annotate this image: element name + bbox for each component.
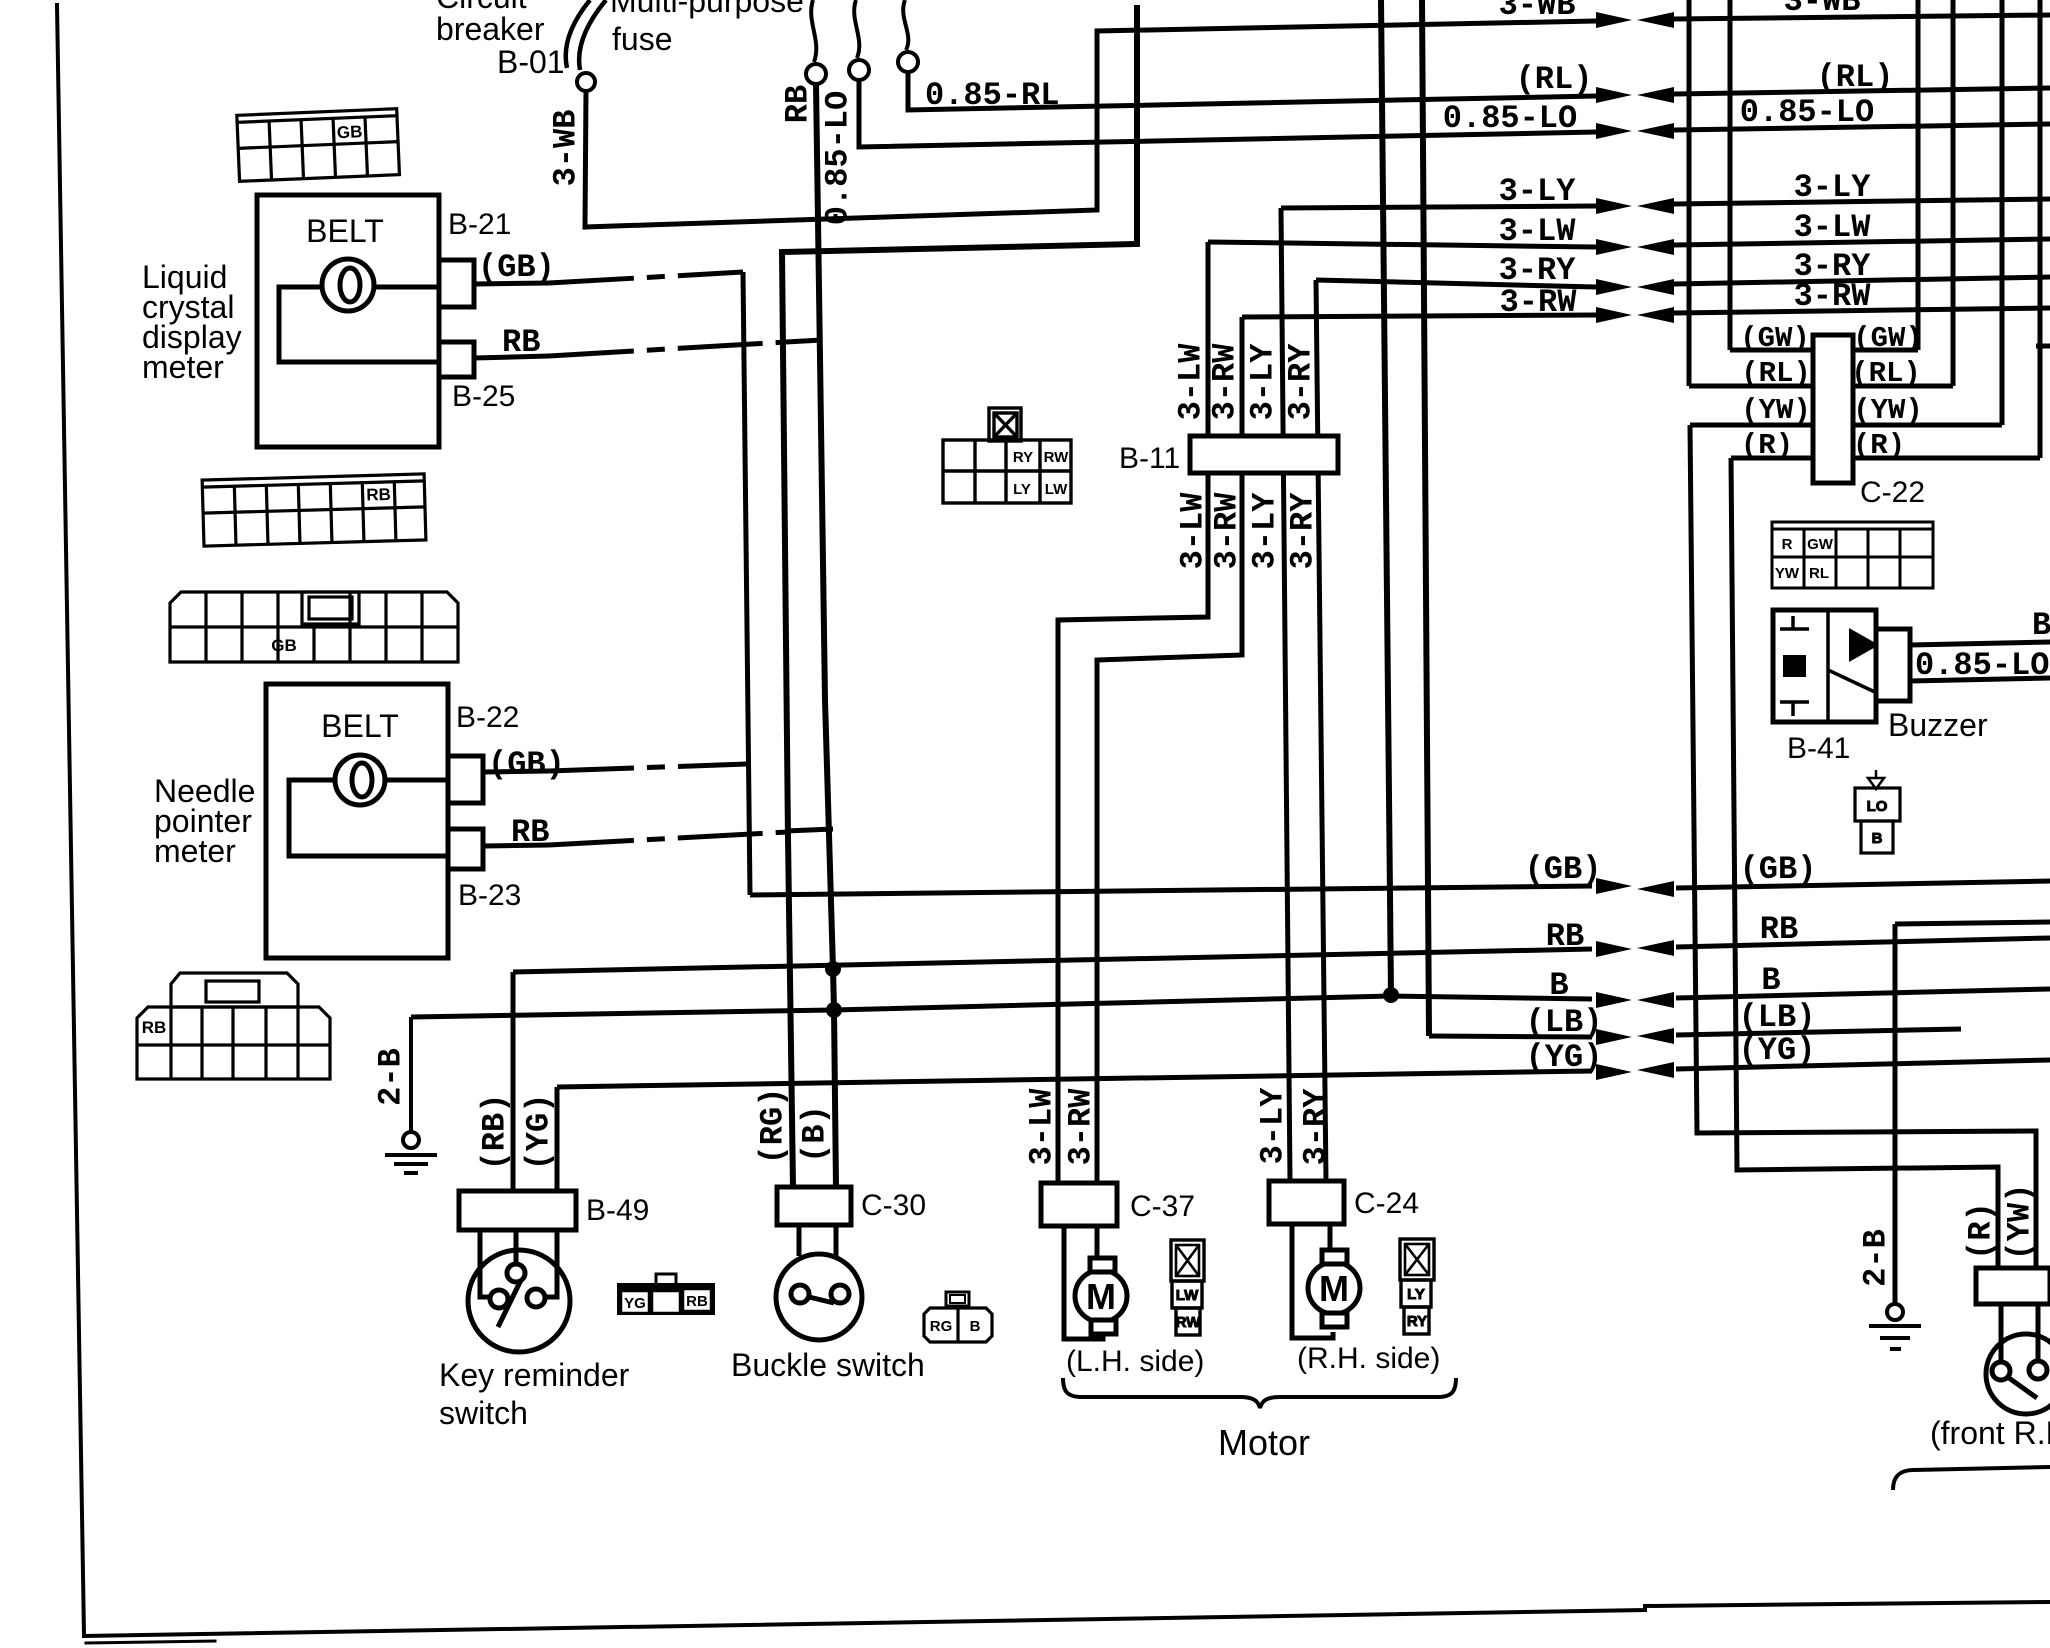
page border bottom (84, 1602, 2050, 1636)
svg-text:3-RW: 3-RW (1207, 343, 1244, 421)
svg-text:0.85-RL: 0.85-RL (925, 77, 1059, 114)
svg-text:Multi-purpose: Multi-purpose (610, 0, 804, 19)
svg-text:B-11: B-11 (1119, 442, 1180, 475)
svg-text:3-LY: 3-LY (1247, 492, 1284, 570)
wire 3-WB right segment (1674, 15, 2050, 19)
svg-text:3-LY: 3-LY (1499, 173, 1577, 210)
wire (GB) dashed from B-21 (474, 283, 549, 284)
pin (GB) B-21 (439, 260, 474, 307)
connector C-22 (1813, 335, 1853, 483)
svg-text:RG: RG (930, 1318, 953, 1335)
wire RB dashed from B-25 (474, 356, 549, 358)
connector B-49 (459, 1191, 576, 1230)
motor wires C-24 (1292, 1224, 1333, 1338)
wire 0.85-LO right segment (1674, 124, 2050, 130)
buzzer pin box (1876, 629, 1910, 701)
svg-text:0.85-LO: 0.85-LO (1443, 100, 1577, 137)
wire (LB) long (1429, 1036, 1592, 1037)
brace Motor (1063, 1378, 1456, 1408)
connector pin table B-11 face (943, 408, 1071, 503)
svg-text:YG: YG (624, 1295, 646, 1312)
svg-text:C-24: C-24 (1354, 1187, 1419, 1220)
svg-text:3-LW: 3-LW (1024, 1088, 1061, 1166)
svg-text:Buzzer: Buzzer (1888, 707, 1988, 743)
svg-text:3-WB: 3-WB (548, 110, 585, 187)
wire 3-LW (1208, 242, 1596, 247)
svg-text:3-RY: 3-RY (1283, 343, 1320, 421)
svg-text:(YG): (YG) (1739, 1032, 1816, 1069)
multi-purpose fuse 1 (811, 0, 816, 62)
wire vertical (GW) right riser (1916, 0, 1921, 350)
svg-text:Key reminder: Key reminder (439, 1357, 630, 1393)
pin (GB) B-22 (448, 756, 483, 803)
svg-text:(GW): (GW) (1853, 322, 1923, 355)
ground 2-B right (1887, 1304, 1903, 1320)
front R.H. switch body (2001, 1304, 2038, 1361)
svg-text:fuse: fuse (612, 21, 672, 57)
svg-text:(R): (R) (1963, 1202, 2000, 1260)
svg-text:breaker: breaker (436, 11, 545, 47)
buckle switch body (799, 1225, 836, 1256)
wire 0.85-LO from fuse 2 (859, 80, 1596, 147)
svg-text:3-WB: 3-WB (1784, 0, 1861, 20)
svg-text:3-LW: 3-LW (1499, 213, 1577, 250)
wire (YG) to B-49 (555, 1087, 560, 1191)
junction dot RB bus x B wire (825, 961, 841, 977)
connector grid GB (relay block) (170, 592, 458, 662)
svg-text:(R): (R) (1853, 429, 1905, 462)
svg-text:Buckle switch: Buckle switch (731, 1347, 925, 1383)
switch blade front R.H. (2009, 1378, 2037, 1398)
circuit breaker B-01 symbol (566, 0, 606, 70)
connector pin table C-22 (1772, 522, 1933, 588)
wire 2-B right drop (1895, 922, 2050, 924)
wire RB dashed from B-23 (483, 845, 549, 846)
svg-text:RB: RB (366, 485, 391, 505)
svg-text:(RL): (RL) (1851, 357, 1921, 390)
wire vertical (YW) right riser (2000, 0, 2005, 425)
svg-text:2-B: 2-B (1858, 1229, 1895, 1287)
svg-text:(R.H. side): (R.H. side) (1297, 1342, 1440, 1375)
svg-text:R: R (1782, 536, 1793, 553)
svg-text:GB: GB (271, 636, 297, 655)
svg-text:3-RW: 3-RW (1209, 492, 1246, 570)
wire 3-RY through B-11 to C-24 (1316, 280, 1326, 1181)
wire (GB) dashed from B-22 (483, 771, 549, 772)
brace front R.H. (1893, 1467, 2050, 1490)
wire 0.85-RL from fuse 3 (908, 72, 1596, 110)
wire 3-LW through B-11 to C-37 (1058, 242, 1208, 1183)
svg-text:(front R.H.: (front R.H. (1930, 1415, 2050, 1451)
svg-text:RL: RL (1809, 565, 1829, 582)
wire (GB) long (750, 886, 1592, 895)
lamp BELT (needle) (335, 755, 385, 805)
wire vertical bus to B wire junction (1381, 0, 1391, 995)
wire (RL) left (1689, 384, 1813, 389)
motor M (L.H.) (1075, 1270, 1127, 1322)
svg-text:M: M (1086, 1276, 1116, 1317)
svg-text:(YG): (YG) (521, 1094, 558, 1171)
wire (YW) right (1853, 423, 2002, 428)
wire 3-LY (1281, 206, 1596, 208)
svg-text:LW: LW (1045, 481, 1068, 498)
pin RB B-23 (448, 829, 483, 869)
connector RG/B (loose) (924, 1292, 992, 1342)
arrow pair RB (1596, 941, 1632, 957)
svg-text:B-22: B-22 (456, 701, 519, 734)
wire B from buzzer (1910, 642, 2050, 645)
wire vertical bus to (LB) (1422, 0, 1429, 1036)
svg-text:(RL): (RL) (1817, 59, 1894, 96)
wire 3-RY (1316, 280, 1596, 287)
connector C-37 (1041, 1183, 1117, 1226)
svg-text:0.85-LO: 0.85-LO (1915, 647, 2049, 684)
wire lamp to (GB) pin (needle) (385, 778, 448, 783)
svg-text:RB: RB (1760, 911, 1798, 948)
svg-text:0.85-LO: 0.85-LO (1740, 94, 1874, 131)
wire (R) right (1853, 456, 2040, 461)
wire W1 from top edge to C-30 (RG) (782, 5, 1137, 1187)
connector C-24 (1269, 1181, 1344, 1224)
svg-text:3-WB: 3-WB (1499, 0, 1576, 24)
motor wires C-37 (1064, 1226, 1103, 1339)
svg-text:GB: GB (336, 122, 362, 142)
svg-text:RY: RY (1407, 1313, 1427, 1330)
arrow pair (RL) (1596, 87, 1632, 103)
wire 3-RW through B-11 to C-37 (1097, 317, 1242, 1183)
wire (R) long vertical (1731, 458, 1998, 1268)
svg-text:BELT: BELT (321, 708, 399, 744)
svg-text:(RG): (RG) (755, 1088, 792, 1165)
wire vertical (RL)-C22 riser (1687, 0, 1692, 386)
wire B long (411, 996, 1592, 1017)
wire lamp to RB pin (needle) (289, 780, 448, 856)
connector grid GB (instrument) (237, 109, 400, 182)
wire 3-RW (1242, 315, 1596, 317)
arrow pair 3-LW (1596, 239, 1632, 255)
connector grid RB (instrument) (202, 474, 426, 546)
svg-text:(L.H. side): (L.H. side) (1066, 1345, 1204, 1378)
svg-text:(GB): (GB) (1525, 851, 1602, 888)
svg-text:3-LW: 3-LW (1173, 343, 1210, 421)
svg-text:BELT: BELT (306, 213, 384, 249)
wire (YW) left (1690, 423, 1813, 428)
svg-text:(YG): (YG) (1526, 1039, 1603, 1076)
connector YG/RB (loose) (617, 1274, 715, 1315)
svg-text:3-RW: 3-RW (1500, 284, 1578, 321)
svg-text:meter: meter (142, 349, 224, 385)
arrow pair 3-RY (1596, 279, 1632, 295)
lamp BELT (LCD) (322, 259, 374, 311)
svg-text:(YW): (YW) (1741, 394, 1811, 427)
svg-text:(YW): (YW) (2002, 1184, 2039, 1261)
svg-text:LW: LW (1176, 1287, 1199, 1304)
connector grid RB (stepped block) (137, 973, 330, 1079)
wire vertical (GW)-C22 riser (1728, 0, 1733, 350)
wire 3-LY through B-11 to C-24 (1281, 208, 1290, 1181)
ground 2-B left (409, 1017, 413, 1131)
wire (RL) right segment (1674, 88, 2050, 94)
svg-text:(R): (R) (1741, 429, 1793, 462)
svg-text:C-37: C-37 (1130, 1190, 1195, 1223)
connector C-30 (777, 1187, 851, 1225)
svg-text:B-41: B-41 (1787, 732, 1850, 765)
junction dot bus x B wire (1383, 987, 1399, 1003)
svg-text:0.85-LO: 0.85-LO (820, 91, 857, 225)
motor M (R.H.) (1308, 1262, 1360, 1314)
svg-text:(LB): (LB) (1526, 1004, 1603, 1041)
wire (GW) left (1730, 348, 1813, 353)
svg-text:B-49: B-49 (586, 1194, 649, 1227)
svg-text:3-LY: 3-LY (1255, 1087, 1292, 1165)
page border left (57, 5, 84, 1635)
wire RB bus from fuse 1 (816, 84, 836, 1187)
svg-text:(YW): (YW) (1853, 394, 1923, 427)
wire RB long (513, 949, 1592, 972)
wire (R) left (1731, 456, 1813, 461)
svg-text:(GW): (GW) (1740, 322, 1810, 355)
svg-text:B-21: B-21 (448, 208, 511, 241)
svg-text:Motor: Motor (1218, 1422, 1310, 1463)
connector X/LW/RW (loose) (1171, 1240, 1204, 1335)
svg-text:RW: RW (1176, 1314, 1202, 1331)
svg-text:3-LY: 3-LY (1245, 343, 1282, 421)
wire (YG) long (557, 1071, 1592, 1087)
arrow pair 3-RW (1596, 307, 1632, 323)
svg-text:(RL): (RL) (1741, 357, 1811, 390)
wire 3-WB from breaker (585, 21, 1596, 227)
arrow pair 3-LY (1596, 198, 1632, 214)
svg-text:3-RY: 3-RY (1298, 1088, 1335, 1166)
wire stub right edge (2036, 344, 2050, 349)
svg-text:3-RY: 3-RY (1285, 492, 1322, 570)
multi-purpose fuse 2 (854, 0, 859, 58)
svg-text:LY: LY (1013, 481, 1031, 498)
svg-text:(LB): (LB) (1739, 999, 1816, 1036)
label Needle pointer meter (154, 773, 255, 869)
page border bottom stub (86, 1641, 215, 1643)
wire (GW) right (1853, 348, 1918, 353)
svg-text:(RB): (RB) (477, 1094, 514, 1171)
svg-text:B: B (2032, 607, 2050, 644)
buzzer B-41 (1773, 610, 2050, 722)
arrow pair 0.85-LO (1596, 123, 1632, 139)
svg-text:M: M (1319, 1268, 1349, 1309)
arrow pair (GB) (1596, 878, 1632, 894)
arrow pair B (1596, 992, 1632, 1008)
svg-text:(RL): (RL) (1516, 61, 1593, 98)
svg-text:(B): (B) (797, 1105, 834, 1163)
svg-text:C-22: C-22 (1860, 476, 1925, 509)
wire (RB) to B-49 (511, 972, 516, 1191)
svg-text:B-23: B-23 (458, 879, 521, 912)
connector LO/B (loose) (1855, 770, 1900, 853)
svg-text:B: B (970, 1318, 981, 1335)
needle pointer meter box B-22/B-23 (266, 684, 483, 958)
multi-purpose fuse 3 (903, 0, 908, 50)
key reminder switch body (468, 1250, 570, 1352)
wire vertical (R) right riser (2038, 0, 2043, 458)
svg-text:LY: LY (1407, 1286, 1425, 1303)
wire (RL) right (1853, 384, 1953, 389)
svg-text:RY: RY (1013, 449, 1033, 466)
svg-text:RB: RB (780, 85, 817, 123)
arrow pair 3-WB (1596, 12, 1632, 28)
wire vertical (RL) right riser (1951, 0, 1956, 386)
svg-text:B-25: B-25 (452, 380, 515, 413)
switch blade C-30 (809, 1297, 834, 1303)
wire 0.85-LO from buzzer (1910, 678, 2050, 681)
svg-text:meter: meter (154, 833, 236, 869)
svg-text:B: B (1872, 830, 1883, 847)
svg-text:B: B (1549, 967, 1568, 1004)
svg-text:(GB): (GB) (1740, 851, 1817, 888)
svg-text:3-LY: 3-LY (1794, 169, 1872, 206)
svg-text:2-B: 2-B (373, 1048, 410, 1106)
wire (GB) vertical V1 (743, 272, 750, 895)
arrow pair (YG) (1596, 1064, 1632, 1080)
svg-text:(GB): (GB) (478, 249, 555, 286)
switch blade B-49 (498, 1280, 521, 1327)
svg-text:switch: switch (439, 1395, 528, 1431)
wire lamp to RB pin (279, 287, 439, 362)
svg-text:LO: LO (1867, 798, 1888, 815)
svg-text:RB: RB (1546, 918, 1584, 955)
svg-text:RB: RB (686, 1293, 708, 1310)
junction dot RB bus x B wire lower (826, 1002, 842, 1018)
switch wires B-49 (480, 1230, 489, 1297)
svg-text:B-01: B-01 (497, 44, 565, 80)
label Liquid crystal display meter (142, 259, 242, 385)
liquid crystal display meter box B-21/B-25 (257, 195, 474, 447)
wire lamp to (GB) pin (374, 285, 439, 290)
connector X/LY/RY (loose) (1400, 1239, 1434, 1334)
svg-text:GW: GW (1807, 536, 1834, 553)
svg-text:RW: RW (1044, 449, 1070, 466)
connector B-11 (1190, 436, 1338, 473)
svg-text:YW: YW (1775, 565, 1800, 582)
svg-text:(GB): (GB) (488, 746, 565, 783)
pin RB B-25 (439, 342, 474, 377)
svg-text:RB: RB (142, 1018, 167, 1037)
svg-text:3-RW: 3-RW (1794, 278, 1872, 315)
connector front R.H. (1976, 1268, 2050, 1304)
arrow pair (LB) (1596, 1029, 1632, 1045)
svg-text:C-30: C-30 (861, 1189, 926, 1222)
svg-text:3-LW: 3-LW (1175, 492, 1212, 570)
svg-text:3-RW: 3-RW (1063, 1088, 1100, 1166)
svg-text:B: B (1761, 962, 1780, 999)
svg-text:3-LW: 3-LW (1794, 209, 1872, 246)
wire (YW) long vertical (1690, 425, 2036, 1268)
